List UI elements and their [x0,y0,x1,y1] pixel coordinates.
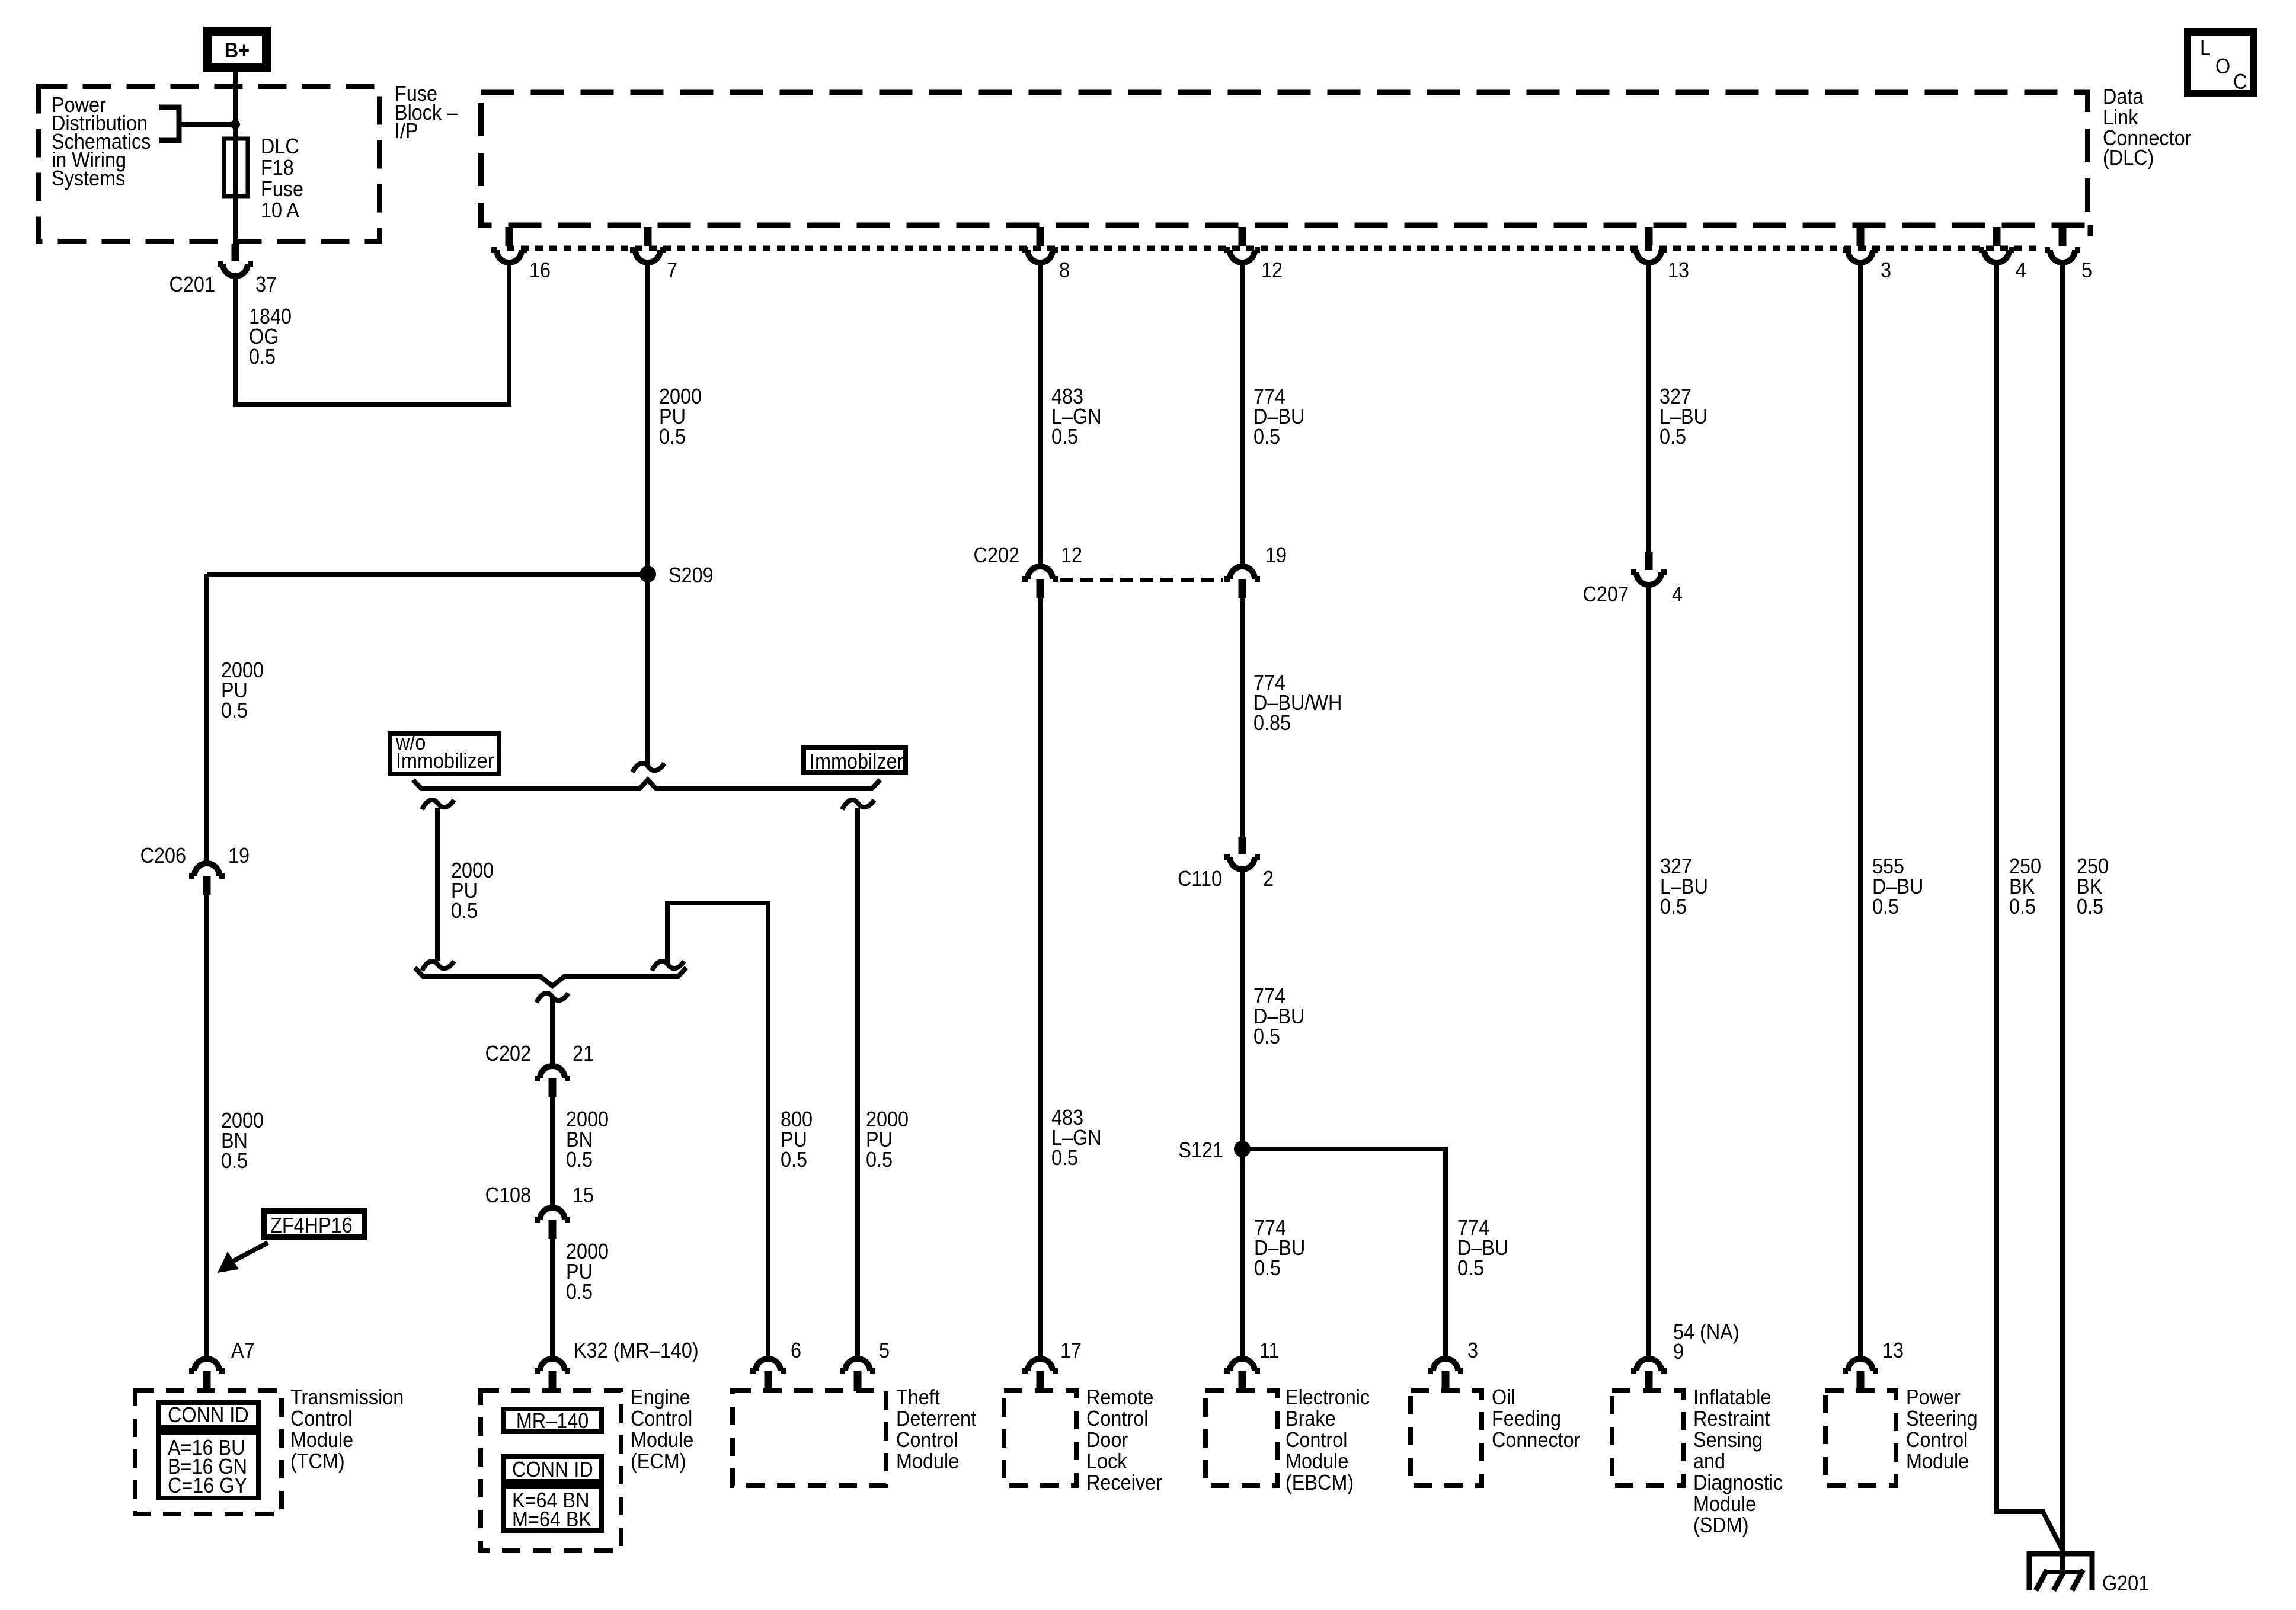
EBCM pin 11 connector [1224,1359,1260,1391]
connector C108 pin 15 [535,1208,570,1239]
svg-text:0.5: 0.5 [866,1148,893,1172]
Data Link Connector dashed box [481,92,2088,225]
TCM CONN ID box [159,1403,258,1427]
svg-text:C207: C207 [1583,582,1629,606]
connector C207 pin 4 [1631,552,1667,585]
svg-text:0.5: 0.5 [451,899,478,923]
theft pin 5 connector [840,1359,875,1391]
splice S209 [639,566,656,582]
label wire 774 D-BU 0.5 [1253,385,1304,449]
label box w/o Immobilizer [390,731,499,774]
svg-text:Control: Control [290,1407,352,1430]
svg-text:Engine: Engine [631,1385,690,1409]
label wire 250 BK 0.5 pin4 [2009,854,2041,918]
svg-text:0.5: 0.5 [249,345,276,369]
svg-text:Systems: Systems [52,167,125,190]
svg-text:0.5: 0.5 [659,425,686,449]
wire C108 to ECM pin K32 [550,1239,555,1356]
svg-text:L: L [2200,36,2211,60]
label wire 2000 PU 0.5 left option [451,859,494,923]
svg-text:12: 12 [1261,258,1283,282]
svg-text:Electronic: Electronic [1285,1385,1370,1409]
svg-text:K32 (MR–140): K32 (MR–140) [574,1339,699,1362]
B+ battery feed symbol [208,31,267,68]
svg-text:Control: Control [631,1407,692,1430]
connector C110 pin 2 [1224,837,1260,869]
label Transmission Control Module (TCM) [290,1385,404,1473]
svg-text:4: 4 [1672,582,1683,606]
svg-text:Module: Module [1285,1449,1348,1473]
connector pin 19 [1224,566,1260,598]
connector C206 pin 19 [189,863,225,895]
svg-text:3: 3 [1881,258,1891,282]
svg-text:Receiver: Receiver [1086,1471,1162,1494]
wire 19 to C110 [1240,598,1245,838]
svg-text:CONN ID: CONN ID [168,1403,249,1427]
wire break squiggle above brace [632,763,664,772]
wire S121 branch to oil feeding connector [1242,1149,1446,1356]
Fuse Block I/P dashed box [39,87,380,242]
svg-text:5: 5 [2081,258,2092,282]
wire B+ down to fuse [233,70,238,244]
svg-text:8: 8 [1059,258,1070,282]
wire TCM branch down to C206 [204,574,209,862]
svg-text:G201: G201 [2102,1571,2149,1595]
svg-text:0.5: 0.5 [1457,1256,1484,1280]
wire break squiggle L-wire bottom [652,961,684,971]
svg-text:(DLC): (DLC) [2103,146,2154,169]
option brace upper [413,780,880,789]
oil feeding dashed box [1411,1391,1482,1486]
svg-text:0.5: 0.5 [1253,1025,1280,1048]
theft pin 6 connector [750,1359,786,1391]
dashed connector link C202-12 to 19 [1060,578,1223,582]
wire pin 7 to S209 [645,260,650,574]
svg-text:0.5: 0.5 [1254,1256,1281,1280]
wire C202-12 to RCDLR pin 17 [1038,598,1043,1356]
svg-text:9: 9 [1673,1340,1684,1363]
svg-text:Link: Link [2103,105,2138,129]
svg-text:C206: C206 [140,844,186,868]
svg-text:5: 5 [879,1339,890,1362]
svg-text:0.5: 0.5 [221,699,248,722]
label wire 483 L-GN 0.5 lower [1051,1106,1102,1170]
svg-text:C=16 GY: C=16 GY [168,1474,247,1497]
wire bracket to B+ feed [179,122,235,127]
wire pin 12 down to 19 [1240,260,1245,564]
svg-text:Connector: Connector [1492,1428,1580,1452]
DLC pin 12 connector [1224,227,1260,263]
svg-text:Steering: Steering [1906,1407,1978,1430]
label Fuse Block - I/P [395,82,458,143]
svg-text:0.5: 0.5 [1872,895,1899,918]
svg-text:S209: S209 [669,564,714,587]
label wire 1840 OG 0.5 [249,305,292,369]
ECM conn values box [503,1486,602,1531]
connector C202 pin 12 [1022,566,1058,598]
label wire 2000 PU 0.5 TCM branch [221,658,264,722]
svg-text:Immobilizer: Immobilizer [396,749,494,773]
svg-text:Control: Control [896,1428,958,1452]
TCM dashed box [135,1391,282,1514]
bracket for Power Distribution reference [159,107,179,140]
splice S121 [1234,1141,1251,1157]
svg-text:2: 2 [1263,867,1274,891]
svg-text:0.5: 0.5 [2009,895,2036,918]
wire S209 down to option brace [645,574,650,767]
label wire 774 D-BU/WH 0.85 [1253,671,1342,735]
wire S121 down to EBCM pin 11 [1240,1149,1245,1356]
wire break squiggle below lower brace [536,993,568,1003]
svg-text:19: 19 [228,844,250,868]
label wire 2000 BN 0.5 [221,1109,264,1173]
label Remote Control Door Lock Receiver [1086,1385,1162,1494]
svg-text:21: 21 [573,1042,594,1065]
svg-text:(ECM): (ECM) [631,1449,686,1473]
svg-text:Fuse: Fuse [261,177,303,201]
label Theft Deterrent Control Module [896,1385,976,1473]
svg-text:B+: B+ [225,39,250,62]
label wire 2000 PU 0.5 [659,385,702,449]
wire pin 13 to C207 [1646,260,1651,553]
wire C202-21 to C108-15 [550,1097,555,1205]
label pin 54 (NA) 9 [1673,1320,1739,1363]
svg-text:C: C [2233,70,2247,94]
label Power Steering Control Module [1906,1385,1978,1473]
label wire 774 D-BU 0.5 mid [1253,984,1304,1048]
label wire 774 D-BU 0.5 to oil feeding [1457,1216,1508,1280]
svg-text:Module: Module [896,1449,959,1473]
option brace lower [415,968,686,986]
TCM pin A7 connector [189,1359,225,1391]
svg-text:Restraint: Restraint [1693,1407,1770,1430]
ECM CONN ID box [503,1457,602,1481]
wire C201 down and over to DLC pin 16 [235,260,509,405]
SDM pin 9 connector [1631,1359,1667,1391]
svg-text:0.5: 0.5 [566,1280,593,1304]
svg-text:Door: Door [1086,1428,1128,1452]
DLC pin 4 connector [1979,227,2014,263]
svg-text:0.5: 0.5 [1659,425,1686,449]
label wire 800 PU 0.5 [781,1108,813,1172]
wire L-shape to theft pin 6 [667,903,768,1356]
svg-text:17: 17 [1060,1339,1082,1362]
svg-text:A7: A7 [231,1339,255,1362]
power steering dashed box [1825,1391,1896,1486]
svg-text:Control: Control [1906,1428,1968,1452]
label Oil Feeding Connector [1492,1385,1580,1452]
wire pin 3 to power steering module [1858,260,1863,1356]
svg-text:0.85: 0.85 [1253,711,1291,735]
DLC pin 13 connector [1631,227,1667,263]
ECM MR-140 box [503,1409,602,1433]
svg-text:Module: Module [290,1428,353,1452]
DLC pin 5 connector [2045,227,2080,263]
label fuse DLC F18 Fuse 10 A [261,135,303,222]
svg-text:(TCM): (TCM) [290,1449,345,1473]
svg-text:Control: Control [1285,1428,1347,1452]
svg-text:and: and [1693,1449,1725,1473]
svg-text:37: 37 [255,273,277,296]
svg-text:F18: F18 [261,156,294,180]
svg-text:Transmission: Transmission [290,1385,404,1409]
wire pin 4 to ground [1997,260,2064,1553]
label wire 2000 PU 0.5 to ECM [566,1240,609,1304]
node junction at B+ feed [231,120,240,129]
fuse DLC F18 10A [224,139,248,196]
wire C207 to SDM pin 9 [1646,587,1651,1356]
svg-text:O: O [2215,55,2230,78]
DLC box right edge extension [2088,225,2093,236]
svg-text:Lock: Lock [1086,1449,1127,1473]
label Inflatable Restraint Sensing and Diagnostic Module (SDM) [1693,1385,1783,1537]
power steering pin 13 connector [1843,1359,1878,1391]
svg-text:0.5: 0.5 [1253,425,1280,449]
svg-text:19: 19 [1265,543,1287,567]
svg-text:I/P: I/P [395,119,418,143]
svg-text:0.5: 0.5 [221,1149,248,1173]
svg-text:(SDM): (SDM) [1693,1513,1749,1537]
svg-text:Power: Power [1906,1385,1961,1409]
svg-text:4: 4 [2016,258,2026,282]
connector C202 pin 21 [535,1066,570,1097]
svg-text:C202: C202 [485,1042,531,1065]
svg-text:0.5: 0.5 [566,1148,593,1172]
label Electronic Brake Control Module (EBCM) [1285,1385,1370,1494]
svg-text:11: 11 [1259,1339,1280,1362]
svg-text:Control: Control [1086,1407,1148,1430]
ECM dashed box [481,1391,621,1550]
svg-text:CONN ID: CONN ID [512,1458,593,1481]
DLC pin 16 connector [491,227,527,263]
svg-text:0.5: 0.5 [1660,895,1687,918]
svg-text:DLC: DLC [261,135,299,158]
svg-text:10 A: 10 A [261,199,299,222]
wire pin 8 down to C202-12 [1038,260,1043,564]
svg-text:3: 3 [1467,1339,1478,1362]
svg-text:Module: Module [1906,1449,1969,1473]
DLC pin 8 connector [1022,227,1058,263]
label box Immobilzer [804,748,906,773]
ECM pin K32 connector [535,1359,570,1391]
wire lower brace to C202-21 [550,997,555,1064]
svg-text:13: 13 [1668,258,1689,282]
label wire 250 BK 0.5 pin5 [2077,854,2109,918]
svg-text:0.5: 0.5 [1051,1146,1078,1170]
svg-text:Deterrent: Deterrent [896,1407,976,1430]
svg-text:C110: C110 [1178,867,1222,891]
wire S209 to TCM branch [207,572,648,577]
label wire 555 D-BU 0.5 [1872,854,1923,918]
svg-text:13: 13 [1882,1339,1904,1362]
svg-text:0.5: 0.5 [781,1148,807,1172]
label Engine Control Module (ECM) [631,1385,693,1473]
label wire 483 L-GN 0.5 [1051,385,1102,449]
svg-text:Module: Module [631,1428,693,1452]
wire break squiggle left option bottom [422,961,454,971]
TCM conn values box [159,1432,258,1498]
svg-text:(EBCM): (EBCM) [1285,1471,1354,1494]
RCDLR pin 17 connector [1022,1359,1058,1391]
RCDLR dashed box [1004,1391,1076,1486]
svg-text:Remote: Remote [1086,1385,1153,1409]
label wire 2000 BN 0.5 [566,1108,609,1172]
wire C110 to S121 [1240,872,1245,1149]
label wire 774 D-BU 0.5 to EBCM [1254,1216,1305,1280]
svg-text:0.5: 0.5 [2077,895,2103,918]
svg-text:S121: S121 [1178,1138,1223,1162]
svg-text:Immobilzer: Immobilzer [810,750,903,773]
DLC face dotted line [507,246,2042,251]
svg-text:6: 6 [791,1339,801,1362]
wire right option vertical to theft pin 5 [855,808,860,1356]
svg-text:15: 15 [573,1183,594,1207]
label box ZF4HP16 with arrow [218,1211,364,1273]
wire pin 5 to ground [2060,260,2065,1572]
svg-text:Inflatable: Inflatable [1693,1385,1771,1409]
label wire 327 L-BU 0.5 [1659,385,1707,449]
svg-text:Sensing: Sensing [1693,1428,1763,1452]
connector C201 pin 37 [218,244,253,276]
svg-text:ZF4HP16: ZF4HP16 [270,1214,353,1237]
svg-text:M=64 BK: M=64 BK [512,1507,591,1531]
LOC legend box [2188,32,2254,94]
svg-text:C201: C201 [170,273,215,296]
theft deterrent dashed box [733,1391,886,1486]
svg-text:Oil: Oil [1492,1385,1515,1409]
ground G201 [2029,1554,2092,1590]
svg-text:Data: Data [2103,85,2144,108]
label wire 2000 PU 0.5 right option [866,1108,909,1172]
wire left option vertical [435,808,440,961]
wire break squiggle right option top [842,800,874,809]
oil feeding pin 3 connector [1428,1359,1463,1391]
svg-text:Diagnostic: Diagnostic [1693,1471,1783,1494]
label wire 327 L-BU 0.5 lower [1660,854,1708,918]
DLC pin 7 connector [630,227,666,263]
label Data Link Connector (DLC) [2103,85,2191,169]
EBCM dashed box [1205,1391,1278,1486]
DLC pin 3 connector [1843,227,1878,263]
svg-text:0.5: 0.5 [1051,425,1078,449]
svg-text:MR–140: MR–140 [516,1409,589,1433]
svg-text:Module: Module [1693,1492,1756,1516]
wire break squiggle left option top [422,800,454,809]
svg-text:7: 7 [667,258,677,282]
wire C206 to TCM pin A7 [204,895,209,1356]
svg-text:C108: C108 [485,1183,531,1207]
svg-text:Brake: Brake [1285,1407,1336,1430]
label Power Distribution Schematics [52,93,151,190]
svg-text:Feeding: Feeding [1492,1407,1561,1430]
svg-text:12: 12 [1061,543,1082,567]
svg-text:Theft: Theft [896,1385,940,1409]
SDM dashed box [1612,1391,1683,1486]
svg-text:16: 16 [529,258,551,282]
svg-text:C202: C202 [974,543,1019,567]
